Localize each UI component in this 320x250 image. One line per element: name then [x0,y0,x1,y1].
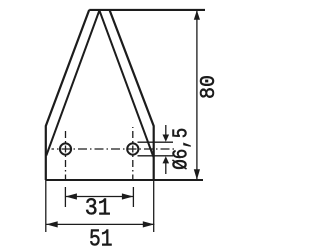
51 ext line left [45,180,47,232]
51 ext line right [153,180,155,232]
arrow 80 top [194,10,200,20]
svg-text:Ø6,5: Ø6,5 [171,128,194,170]
bottom edge line + extension line for 80 dim [46,179,203,181]
arrow 51 left [46,221,58,227]
vertical centerline left hole [65,130,67,179]
horizontal centerline through holes [52,148,177,150]
arrow diameter down [163,135,170,142]
diameter arrow shaft bottom [165,162,167,174]
inner bevel left [46,10,99,155]
arrow diameter up [163,156,170,163]
arrow 51 right [143,221,155,227]
blade outline left [46,10,89,180]
arrow 31 right [122,193,133,199]
svg-text:80: 80 [198,75,221,99]
svg-text:31: 31 [85,196,111,223]
31 ext line left [64,187,66,207]
svg-text:51: 51 [89,226,113,250]
inner bevel right [99,10,153,157]
31 ext line right [132,187,134,207]
blade outline right [110,10,154,180]
diameter arrow shaft top [165,125,167,136]
arrow 31 left [65,193,77,199]
hole left [60,143,71,154]
hole right [127,143,138,154]
80 dimension line [196,11,198,179]
diameter ext line bottom [138,155,174,157]
top edge line + extension line for 80 dim [89,9,205,11]
arrow 80 bottom [194,169,200,180]
31 dimension line [65,196,133,198]
vertical centerline right hole [132,127,134,179]
51 dimension line [46,223,154,225]
diameter ext line top [138,141,174,143]
